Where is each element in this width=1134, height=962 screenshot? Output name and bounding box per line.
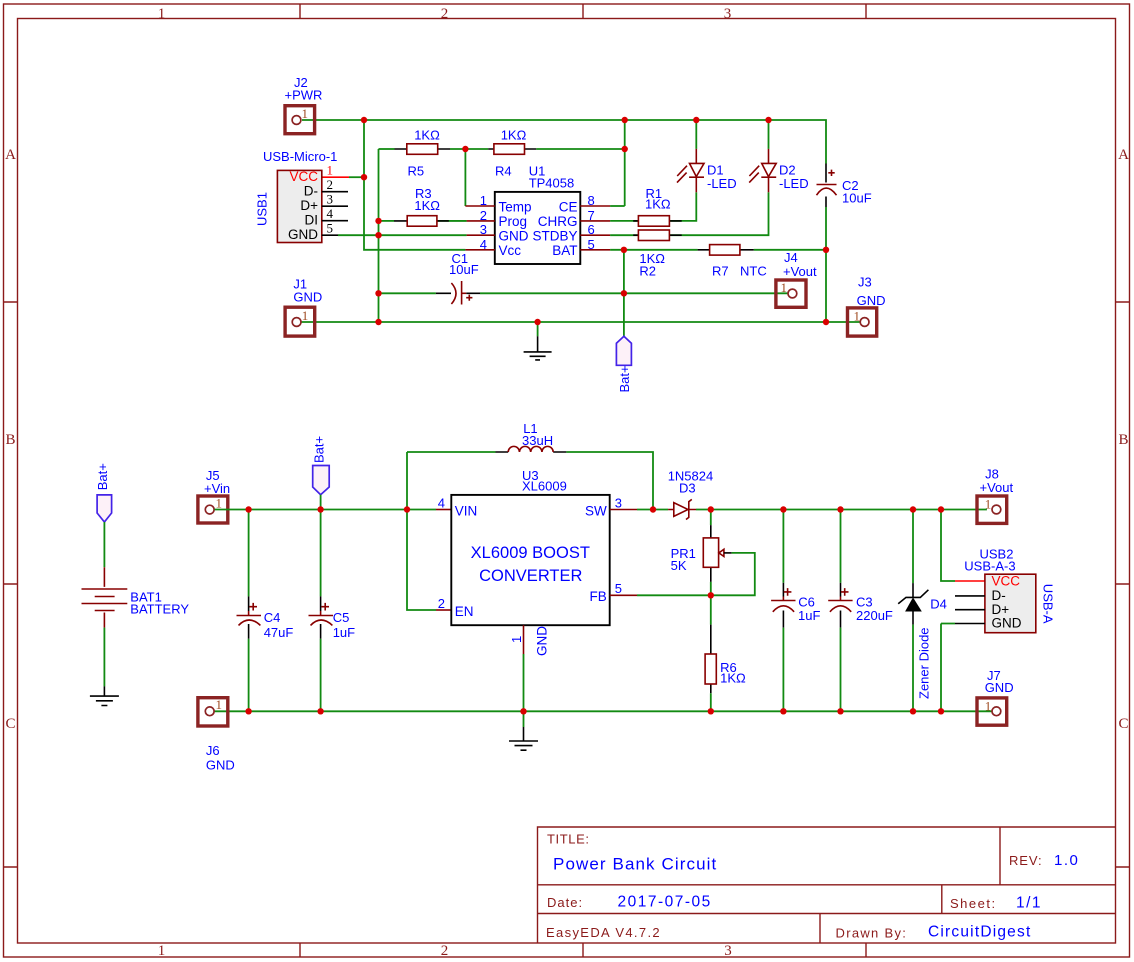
svg-text:VCC: VCC (289, 169, 318, 184)
capacitor C2 (825, 164, 827, 208)
svg-text:4: 4 (327, 206, 334, 221)
resistor R1 (633, 220, 682, 222)
wire CE vertical (624, 120, 626, 206)
svg-text:+PWR: +PWR (285, 88, 323, 103)
svg-text:3: 3 (724, 6, 732, 22)
svg-text:1: 1 (216, 496, 223, 511)
wire R2 to D2 (670, 192, 769, 235)
svg-text:2: 2 (441, 6, 449, 22)
svg-text:GND: GND (535, 626, 550, 656)
wire ground stub top circuit (537, 322, 539, 336)
svg-text:33uH: 33uH (522, 433, 553, 448)
junction Vin rail / C5 Bat+ (317, 506, 323, 512)
svg-text:REV:: REV: (1009, 853, 1042, 868)
junction +PWR rail / CE vertical (622, 117, 628, 123)
svg-text:1: 1 (216, 697, 223, 712)
svg-text:BAT: BAT (552, 243, 577, 258)
wire to USB2 VCC (941, 510, 955, 582)
svg-text:USB-A: USB-A (1041, 584, 1056, 624)
capacitor C1 (436, 292, 480, 294)
svg-text:CONVERTER: CONVERTER (479, 567, 582, 585)
connector J7 GND (977, 698, 1007, 725)
wire flag2 to VIN row (320, 495, 322, 510)
zener diode D4 (912, 510, 914, 584)
svg-text:+Vout: +Vout (783, 264, 817, 279)
svg-text:C: C (1118, 716, 1128, 732)
junction R4/CE node (622, 146, 628, 152)
diode D3 1N5824 (668, 509, 696, 511)
wire STDBY to R2 (610, 234, 638, 236)
svg-text:5: 5 (588, 237, 595, 252)
USB1 pin 4 stub (322, 220, 348, 222)
wire top rail from J2 to C2 corner (302, 120, 826, 164)
svg-text:EasyEDA V4.7.2: EasyEDA V4.7.2 (546, 925, 661, 940)
battery BAT1 (103, 567, 105, 627)
U3 pin 5 FB (610, 594, 637, 596)
USB2 pin stubs D- D+ GND (955, 596, 985, 624)
junction BAT pin5 node (621, 247, 627, 253)
svg-text:D-: D- (304, 184, 318, 199)
wire C2 vertical lower (825, 207, 827, 322)
wire battery to ground (103, 628, 105, 687)
svg-text:STDBY: STDBY (532, 229, 577, 244)
svg-text:1KΩ: 1KΩ (645, 197, 671, 212)
wire R3 to pin2 (437, 220, 467, 222)
junction SW / L1 node (650, 506, 656, 512)
svg-text:Temp: Temp (499, 199, 532, 214)
svg-text:XL6009: XL6009 (522, 479, 567, 494)
resistor R3 (394, 220, 449, 222)
svg-text:R5: R5 (408, 163, 425, 178)
svg-text:GND: GND (992, 616, 1022, 631)
junction GND rail / D4 (910, 708, 916, 714)
svg-text:1: 1 (480, 193, 487, 208)
resistor R2 (633, 234, 682, 236)
svg-text:5: 5 (615, 581, 622, 596)
svg-text:7: 7 (588, 208, 595, 223)
junction GND rail / C4 (245, 708, 251, 714)
wire PR1 lower to FB row (710, 582, 712, 595)
connector J5 +Vin (198, 496, 228, 523)
svg-text:GND: GND (293, 290, 322, 305)
wire VCC red segment from USB1 pin1 (322, 176, 349, 178)
connector USB2 USB-A-3 (985, 574, 1036, 633)
junction +PWR rail / D1 (693, 117, 699, 123)
IC U3 XL6009 (451, 495, 609, 625)
svg-text:BATTERY: BATTERY (130, 602, 189, 617)
svg-text:NTC: NTC (740, 264, 767, 279)
svg-text:1KΩ: 1KΩ (414, 128, 440, 143)
svg-text:1KΩ: 1KΩ (501, 128, 527, 143)
junction GND rail / U3 ground (520, 708, 526, 714)
svg-text:D-: D- (992, 588, 1006, 603)
svg-text:2: 2 (438, 596, 445, 611)
svg-text:DI: DI (305, 213, 319, 228)
connector J2 +PWR (285, 106, 315, 134)
svg-text:Bat+: Bat+ (617, 365, 632, 392)
U1 pin 4 Vcc (465, 249, 494, 251)
connector J6 GND (198, 698, 228, 726)
wire R5 to R4 (450, 148, 488, 150)
svg-text:4: 4 (480, 237, 487, 252)
connector J8 +Vout (977, 496, 1007, 523)
svg-text:D4: D4 (930, 597, 947, 612)
svg-text:47uF: 47uF (264, 625, 294, 640)
junction Vin rail / L1 EN vertical (404, 506, 410, 512)
junction C1 left node (375, 290, 381, 296)
svg-text:TP4058: TP4058 (529, 176, 575, 191)
svg-text:1: 1 (302, 106, 309, 121)
svg-text:GND: GND (288, 227, 318, 242)
svg-text:B: B (5, 432, 15, 448)
svg-text:CHRG: CHRG (538, 214, 578, 229)
svg-text:J6: J6 (206, 743, 220, 758)
wire J2/VCC vertical to Vcc pin4 row (364, 120, 465, 250)
inductor L1 (496, 451, 567, 453)
svg-text:GND: GND (499, 229, 529, 244)
wire PR1 wiper to FB (711, 553, 755, 595)
svg-text:1: 1 (302, 308, 309, 323)
svg-text:SW: SW (585, 503, 607, 518)
U1 pin 7 CHRG (580, 220, 610, 222)
U3 pin 1 GND (523, 625, 525, 654)
USB1 pin 2 stub (322, 191, 348, 193)
junction BAT row / C2 (823, 247, 829, 253)
svg-text:J8: J8 (985, 466, 999, 481)
ground symbol U3 (523, 711, 525, 727)
USB1 pin 5 stub (322, 234, 338, 236)
svg-text:1: 1 (327, 163, 334, 178)
svg-text:1uF: 1uF (798, 608, 820, 623)
connector J3 GND (848, 308, 877, 336)
U3 pin 4 stub (436, 509, 451, 511)
svg-text:1KΩ: 1KΩ (414, 198, 440, 213)
junction D3 / PR1 node (708, 506, 714, 512)
resistor R4 (488, 148, 536, 150)
svg-text:A: A (1118, 147, 1129, 163)
net flag Bat+ battery (97, 495, 112, 522)
svg-text:Bat+: Bat+ (312, 436, 327, 463)
wire D3 to output rail (696, 509, 987, 511)
svg-text:Date:: Date: (547, 895, 583, 910)
wire R7 to C2 vertical (754, 249, 826, 251)
junction GND rail / R6 (708, 708, 714, 714)
svg-text:2017-07-05: 2017-07-05 (618, 894, 712, 911)
USB1 pin 3 stub (322, 205, 348, 207)
svg-text:1KΩ: 1KΩ (720, 670, 746, 685)
wire bottom rail J6 to J7 (215, 710, 992, 712)
capacitor C5 (320, 510, 322, 597)
wire R6 to rail (710, 693, 712, 711)
junction GND rail / ground (534, 319, 540, 325)
svg-text:D3: D3 (679, 480, 696, 495)
svg-text:-LED: -LED (707, 176, 737, 191)
svg-text:3: 3 (724, 943, 732, 959)
wire R1 to D1 (670, 192, 697, 221)
svg-text:R4: R4 (495, 163, 512, 178)
potentiometer PR1 (710, 510, 712, 526)
title block outline (538, 827, 1116, 943)
junction GND rail / C3 (837, 708, 843, 714)
svg-text:C: C (5, 716, 15, 732)
capacitor C3 (840, 510, 842, 583)
U1 pin 5 BAT (580, 249, 610, 251)
svg-text:10uF: 10uF (842, 191, 872, 206)
wire VCC green segment to vertical (349, 176, 364, 178)
svg-text:5: 5 (327, 221, 334, 236)
svg-text:2: 2 (441, 943, 449, 959)
svg-text:-LED: -LED (779, 176, 809, 191)
svg-text:5K: 5K (671, 558, 687, 573)
U3 pin 3 SW (610, 509, 637, 511)
svg-text:1: 1 (985, 497, 992, 512)
wire R3 out green (449, 220, 467, 222)
junction C1/J4/Bat+ node (621, 290, 627, 296)
svg-text:+Vout: +Vout (980, 480, 1014, 495)
wire VIN vertical to L1 and EN (407, 452, 436, 610)
capacitor C6 (782, 510, 784, 583)
frame right ticks (1116, 302, 1130, 867)
wire R5 feed vertical x=378.5 (378, 149, 380, 322)
svg-text:XL6009 BOOST: XL6009 BOOST (471, 544, 590, 562)
wire GND row USB1 to pin3 (338, 234, 467, 236)
svg-text:8: 8 (588, 193, 595, 208)
svg-text:1: 1 (985, 699, 992, 714)
svg-text:3: 3 (615, 495, 622, 510)
net flag Bat+ top (616, 336, 631, 365)
wire U3 GND to rail (523, 654, 525, 711)
svg-text:EN: EN (455, 604, 474, 619)
wire FB green (637, 594, 711, 596)
wire D2 top (768, 120, 770, 149)
junction GND rail / USB2 GND (938, 708, 944, 714)
wire BAT pin5 to R7 (610, 249, 698, 251)
svg-text:3: 3 (480, 222, 487, 237)
svg-text:Prog: Prog (499, 214, 528, 229)
svg-text:GND: GND (857, 293, 886, 308)
svg-text:VCC: VCC (992, 574, 1021, 589)
svg-text:A: A (5, 147, 16, 163)
junction FB node (708, 592, 714, 598)
junction Vin rail / C4 (245, 506, 251, 512)
svg-text:VIN: VIN (455, 503, 478, 518)
junction R5/R4 node (462, 146, 468, 152)
resistor R6 (710, 595, 712, 624)
wire CHRG to R1 (610, 220, 638, 222)
junction GND row node (375, 232, 381, 238)
wire USB2 GND down to rail (941, 624, 955, 712)
junction Vout rail / USB2 VCC (938, 506, 944, 512)
svg-text:CE: CE (559, 199, 578, 214)
svg-text:1: 1 (781, 280, 788, 295)
svg-text:1: 1 (158, 6, 166, 22)
wire C1 row left (379, 292, 436, 294)
wire R5 row left (379, 148, 395, 150)
svg-text:TITLE:: TITLE: (547, 832, 590, 847)
wire C1 to J4 (480, 292, 788, 294)
svg-text:1: 1 (509, 636, 524, 643)
IC U1 TP4058 (495, 192, 581, 264)
svg-text:6: 6 (588, 222, 595, 237)
svg-text:Drawn By:: Drawn By: (836, 926, 908, 941)
svg-text:2: 2 (480, 208, 487, 223)
wire CE horizontal (610, 205, 625, 207)
svg-text:Vcc: Vcc (499, 243, 522, 258)
svg-text:220uF: 220uF (856, 608, 893, 623)
U3 pin 2 stub (436, 609, 451, 611)
resistor R5 (395, 148, 451, 150)
junction +PWR rail / J2 vertical (361, 117, 367, 123)
junction +PWR rail / D2 (765, 117, 771, 123)
wire R4 to CE vertical (536, 148, 625, 150)
U1 pin 6 STDBY (580, 234, 610, 236)
U1 pin 1 Temp (465, 205, 494, 207)
svg-text:Power Bank Circuit: Power Bank Circuit (553, 855, 717, 874)
svg-text:Zener Diode: Zener Diode (916, 627, 931, 699)
svg-text:GND: GND (206, 758, 235, 773)
wire bottom GND rail J1 to J3 (302, 321, 861, 323)
connector J1 GND (285, 307, 315, 336)
wire L1 to SW (566, 452, 653, 510)
resistor R7 NTC (698, 249, 754, 251)
svg-text:1/1: 1/1 (1016, 895, 1042, 912)
svg-text:USB1: USB1 (255, 192, 270, 226)
junction Vout rail / C3 (837, 506, 843, 512)
svg-text:J4: J4 (784, 250, 798, 265)
svg-text:C5: C5 (333, 610, 350, 625)
U1 pin 3 GND (467, 234, 495, 236)
LED D2 (768, 149, 770, 192)
junction GND rail / R-vertical (375, 319, 381, 325)
connector USB1 USB-Micro-1 (277, 170, 321, 242)
wire R3 row left (379, 220, 395, 222)
junction R3 left node (375, 218, 381, 224)
ground symbol battery (90, 686, 119, 705)
svg-text:3: 3 (327, 192, 334, 207)
wire SW to D3 (637, 509, 668, 511)
frame left ticks (4, 302, 18, 867)
svg-text:J3: J3 (858, 275, 872, 290)
svg-text:1: 1 (158, 943, 166, 959)
frame top ticks (300, 4, 866, 19)
svg-text:10uF: 10uF (449, 262, 479, 277)
svg-text:Bat+: Bat+ (95, 463, 110, 490)
svg-text:R2: R2 (639, 263, 656, 278)
svg-text:R7: R7 (712, 264, 729, 279)
svg-text:C4: C4 (264, 610, 281, 625)
junction GND rail / C6 (780, 708, 786, 714)
wire VIN row J5 to U3 (215, 509, 437, 511)
wire R5R4 junction down to pin1 (464, 149, 466, 206)
svg-text:1: 1 (854, 309, 861, 324)
svg-text:4: 4 (438, 495, 445, 510)
svg-text:USB-A-3: USB-A-3 (964, 558, 1015, 573)
U1 pin 8 CE (580, 205, 610, 207)
svg-text:B: B (1118, 432, 1128, 448)
frame bottom ticks (300, 943, 866, 957)
svg-text:GND: GND (985, 680, 1014, 695)
wire BAT vertical to Bat+ flag (623, 250, 625, 336)
ground symbol top circuit (524, 336, 552, 360)
junction GND rail / C5 (317, 708, 323, 714)
connector J4 +Vout (776, 280, 806, 307)
svg-text:CircuitDigest: CircuitDigest (928, 924, 1031, 941)
U1 pin 2 Prog (467, 220, 495, 222)
svg-text:1uF: 1uF (333, 625, 355, 640)
wire flag to battery (103, 522, 105, 567)
junction GND rail / C2 (823, 319, 829, 325)
svg-text:1.0: 1.0 (1054, 852, 1079, 869)
svg-text:D+: D+ (300, 198, 318, 213)
svg-text:Sheet:: Sheet: (950, 896, 997, 911)
junction VCC pin1 node (361, 174, 367, 180)
net flag Bat+ above C5 (313, 466, 330, 495)
junction Vout rail / D4 (910, 506, 916, 512)
svg-text:FB: FB (590, 589, 607, 604)
capacitor C4 (248, 510, 250, 597)
svg-text:+Vin: +Vin (204, 481, 230, 496)
LED D1 (695, 149, 697, 192)
junction Vout rail / C6 (780, 506, 786, 512)
wire to L1 (407, 451, 496, 453)
wire D1 top (695, 120, 697, 149)
svg-text:2: 2 (327, 177, 334, 192)
